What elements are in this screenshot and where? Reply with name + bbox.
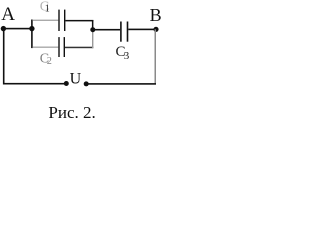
label C2 bbox=[40, 52, 52, 68]
node B bbox=[153, 27, 158, 32]
wire C1 right lead bbox=[65, 20, 93, 22]
wire right vertical bar upper half bbox=[92, 20, 94, 30]
terminal dot left of U bbox=[64, 81, 69, 86]
wire right vertical down from B bbox=[155, 29, 157, 84]
svg-text:1: 1 bbox=[45, 4, 50, 15]
node A bbox=[1, 26, 6, 31]
wire C2 right lead bbox=[65, 47, 93, 49]
wire left vertical down from A bbox=[3, 29, 5, 85]
wire bottom left segment bbox=[3, 83, 66, 85]
wire C2 left lead bbox=[33, 47, 59, 48]
terminal dot right of U bbox=[84, 81, 89, 86]
capacitor C2 bbox=[58, 37, 65, 57]
svg-text:3: 3 bbox=[124, 50, 130, 62]
capacitor C1 bbox=[58, 10, 65, 31]
junction dot right bbox=[90, 27, 95, 32]
wire left vertical bar between C1 and C2 branches bbox=[31, 20, 33, 49]
wire C1 left lead bbox=[33, 20, 59, 21]
junction dot left bbox=[29, 26, 34, 31]
wire right vertical bar lower half bbox=[92, 30, 93, 49]
wire A to left junction bbox=[3, 28, 32, 30]
svg-text:B: B bbox=[150, 5, 161, 25]
svg-text:Рис. 2.: Рис. 2. bbox=[48, 103, 95, 122]
wire C3 right lead to B bbox=[128, 29, 156, 31]
label U bbox=[70, 70, 82, 87]
svg-text:A: A bbox=[1, 4, 15, 25]
svg-text:2: 2 bbox=[47, 56, 52, 67]
label C1 bbox=[40, 0, 50, 15]
node A label bbox=[1, 4, 15, 25]
wire bottom right segment bbox=[86, 83, 156, 85]
capacitor C3 bbox=[120, 22, 128, 42]
svg-text:U: U bbox=[70, 70, 82, 87]
label C3 bbox=[116, 44, 130, 62]
wire junction to C3 bbox=[93, 29, 120, 31]
caption bbox=[48, 103, 95, 122]
node B label bbox=[150, 5, 162, 25]
